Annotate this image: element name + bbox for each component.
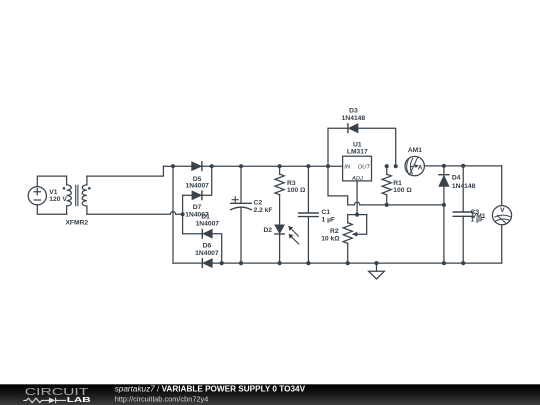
- svg-text:C1: C1: [322, 209, 331, 216]
- wire V1 bottom: [37, 205, 66, 215]
- node bottom D1: [220, 261, 224, 265]
- node D4 top: [442, 164, 446, 168]
- node C2 bottom: [239, 261, 243, 265]
- node D3 out: [394, 164, 398, 168]
- wire bottom rail: [173, 262, 502, 264]
- resistor R3: [275, 166, 306, 225]
- svg-text:100 Ω: 100 Ω: [287, 187, 306, 194]
- svg-text:1 µF: 1 µF: [322, 217, 336, 224]
- ground: [369, 263, 385, 279]
- svg-text:2.2 kF: 2.2 kF: [254, 207, 273, 214]
- op-amp U1 LM317: [343, 141, 372, 182]
- diode D5: [185, 162, 209, 190]
- svg-text:R1: R1: [393, 180, 402, 187]
- diode D1: [183, 213, 222, 263]
- node R1 bottom: [385, 203, 389, 207]
- svg-text:LAB: LAB: [67, 396, 91, 404]
- voltmeter VM1: [472, 166, 512, 263]
- svg-text:D4: D4: [452, 174, 461, 181]
- capacitor C3: [453, 166, 484, 263]
- LED D2: [263, 225, 298, 263]
- svg-text:U1: U1: [353, 141, 362, 148]
- node D5 out: [210, 164, 214, 168]
- svg-text:1N4148: 1N4148: [342, 115, 366, 122]
- node D2 bottom: [278, 261, 282, 265]
- voltage source V1: [28, 187, 67, 205]
- node C3 top: [461, 164, 465, 168]
- footer logo CIRCUIT LAB: [23, 386, 90, 404]
- svg-text:R2: R2: [330, 228, 339, 235]
- diode D3: [328, 108, 396, 167]
- capacitor C1: [299, 166, 335, 263]
- svg-text:D1: D1: [201, 213, 210, 220]
- svg-text:10 kΩ: 10 kΩ: [321, 235, 340, 242]
- capacitor C2: [231, 166, 273, 263]
- node AC2: [181, 212, 185, 216]
- svg-text:D2: D2: [263, 227, 272, 234]
- svg-text:1N4007: 1N4007: [185, 183, 209, 190]
- node R3 top: [278, 164, 282, 168]
- svg-text:OUT: OUT: [358, 164, 371, 170]
- svg-text:spartakuz7 / VARIABLE POWER SU: spartakuz7 / VARIABLE POWER SUPPLY 0 TO3…: [115, 385, 306, 394]
- diode D4: [439, 166, 476, 263]
- node C2 top: [239, 164, 243, 168]
- wire AC2 vertical: [182, 195, 184, 233]
- svg-text:120 V: 120 V: [49, 196, 67, 203]
- svg-text:AM1: AM1: [408, 147, 422, 154]
- wire V1 top: [37, 176, 66, 187]
- wire ADJ vertical: [356, 181, 358, 215]
- node C1 bottom: [306, 261, 310, 265]
- wire IN to R1 bottom with hop: [328, 166, 444, 205]
- node D4 bottom: [442, 261, 446, 265]
- ammeter AM1: [405, 147, 424, 176]
- svg-text:D3: D3: [349, 108, 358, 115]
- node C3 bottom: [461, 261, 465, 265]
- diode D6: [195, 243, 219, 268]
- svg-text:D6: D6: [203, 243, 212, 250]
- svg-text:1N4007: 1N4007: [195, 250, 219, 257]
- wire secondary bottom AC2 with hop: [87, 212, 183, 215]
- node ADJ net: [355, 213, 359, 217]
- svg-text:C2: C2: [254, 200, 263, 207]
- node R1 top: [385, 164, 389, 168]
- node C1 top: [306, 164, 310, 168]
- svg-text:100 Ω: 100 Ω: [393, 187, 412, 194]
- wire AC1 vertical: [172, 166, 174, 263]
- footer title text: [115, 385, 306, 404]
- potentiometer R2: [321, 215, 366, 264]
- svg-text:R3: R3: [287, 180, 296, 187]
- svg-text:1N4007: 1N4007: [196, 221, 220, 228]
- resistor R1: [382, 166, 412, 205]
- footer bar: [0, 384, 540, 405]
- wire rail right of AM1: [424, 165, 501, 167]
- svg-text:A: A: [418, 164, 423, 171]
- svg-text:LM317: LM317: [347, 149, 368, 156]
- node D4 adj: [442, 203, 446, 207]
- wire top rail left: [163, 165, 191, 167]
- svg-text:IN: IN: [344, 164, 351, 170]
- wire top rail mid: [202, 165, 342, 167]
- node IN rail: [326, 164, 330, 168]
- svg-text:V: V: [500, 207, 505, 214]
- transformer XFMR2: [63, 176, 91, 226]
- wire secondary top: [87, 166, 163, 176]
- node R2 bottom: [346, 261, 350, 265]
- svg-text:XFMR2: XFMR2: [65, 219, 88, 226]
- node ground: [374, 261, 378, 265]
- diode D7: [183, 166, 212, 218]
- node AC1: [171, 164, 175, 168]
- svg-text:VM1: VM1: [472, 213, 486, 220]
- svg-text:D7: D7: [193, 204, 202, 211]
- svg-text:http://circuitlab.com/cbn72y4: http://circuitlab.com/cbn72y4: [115, 394, 209, 403]
